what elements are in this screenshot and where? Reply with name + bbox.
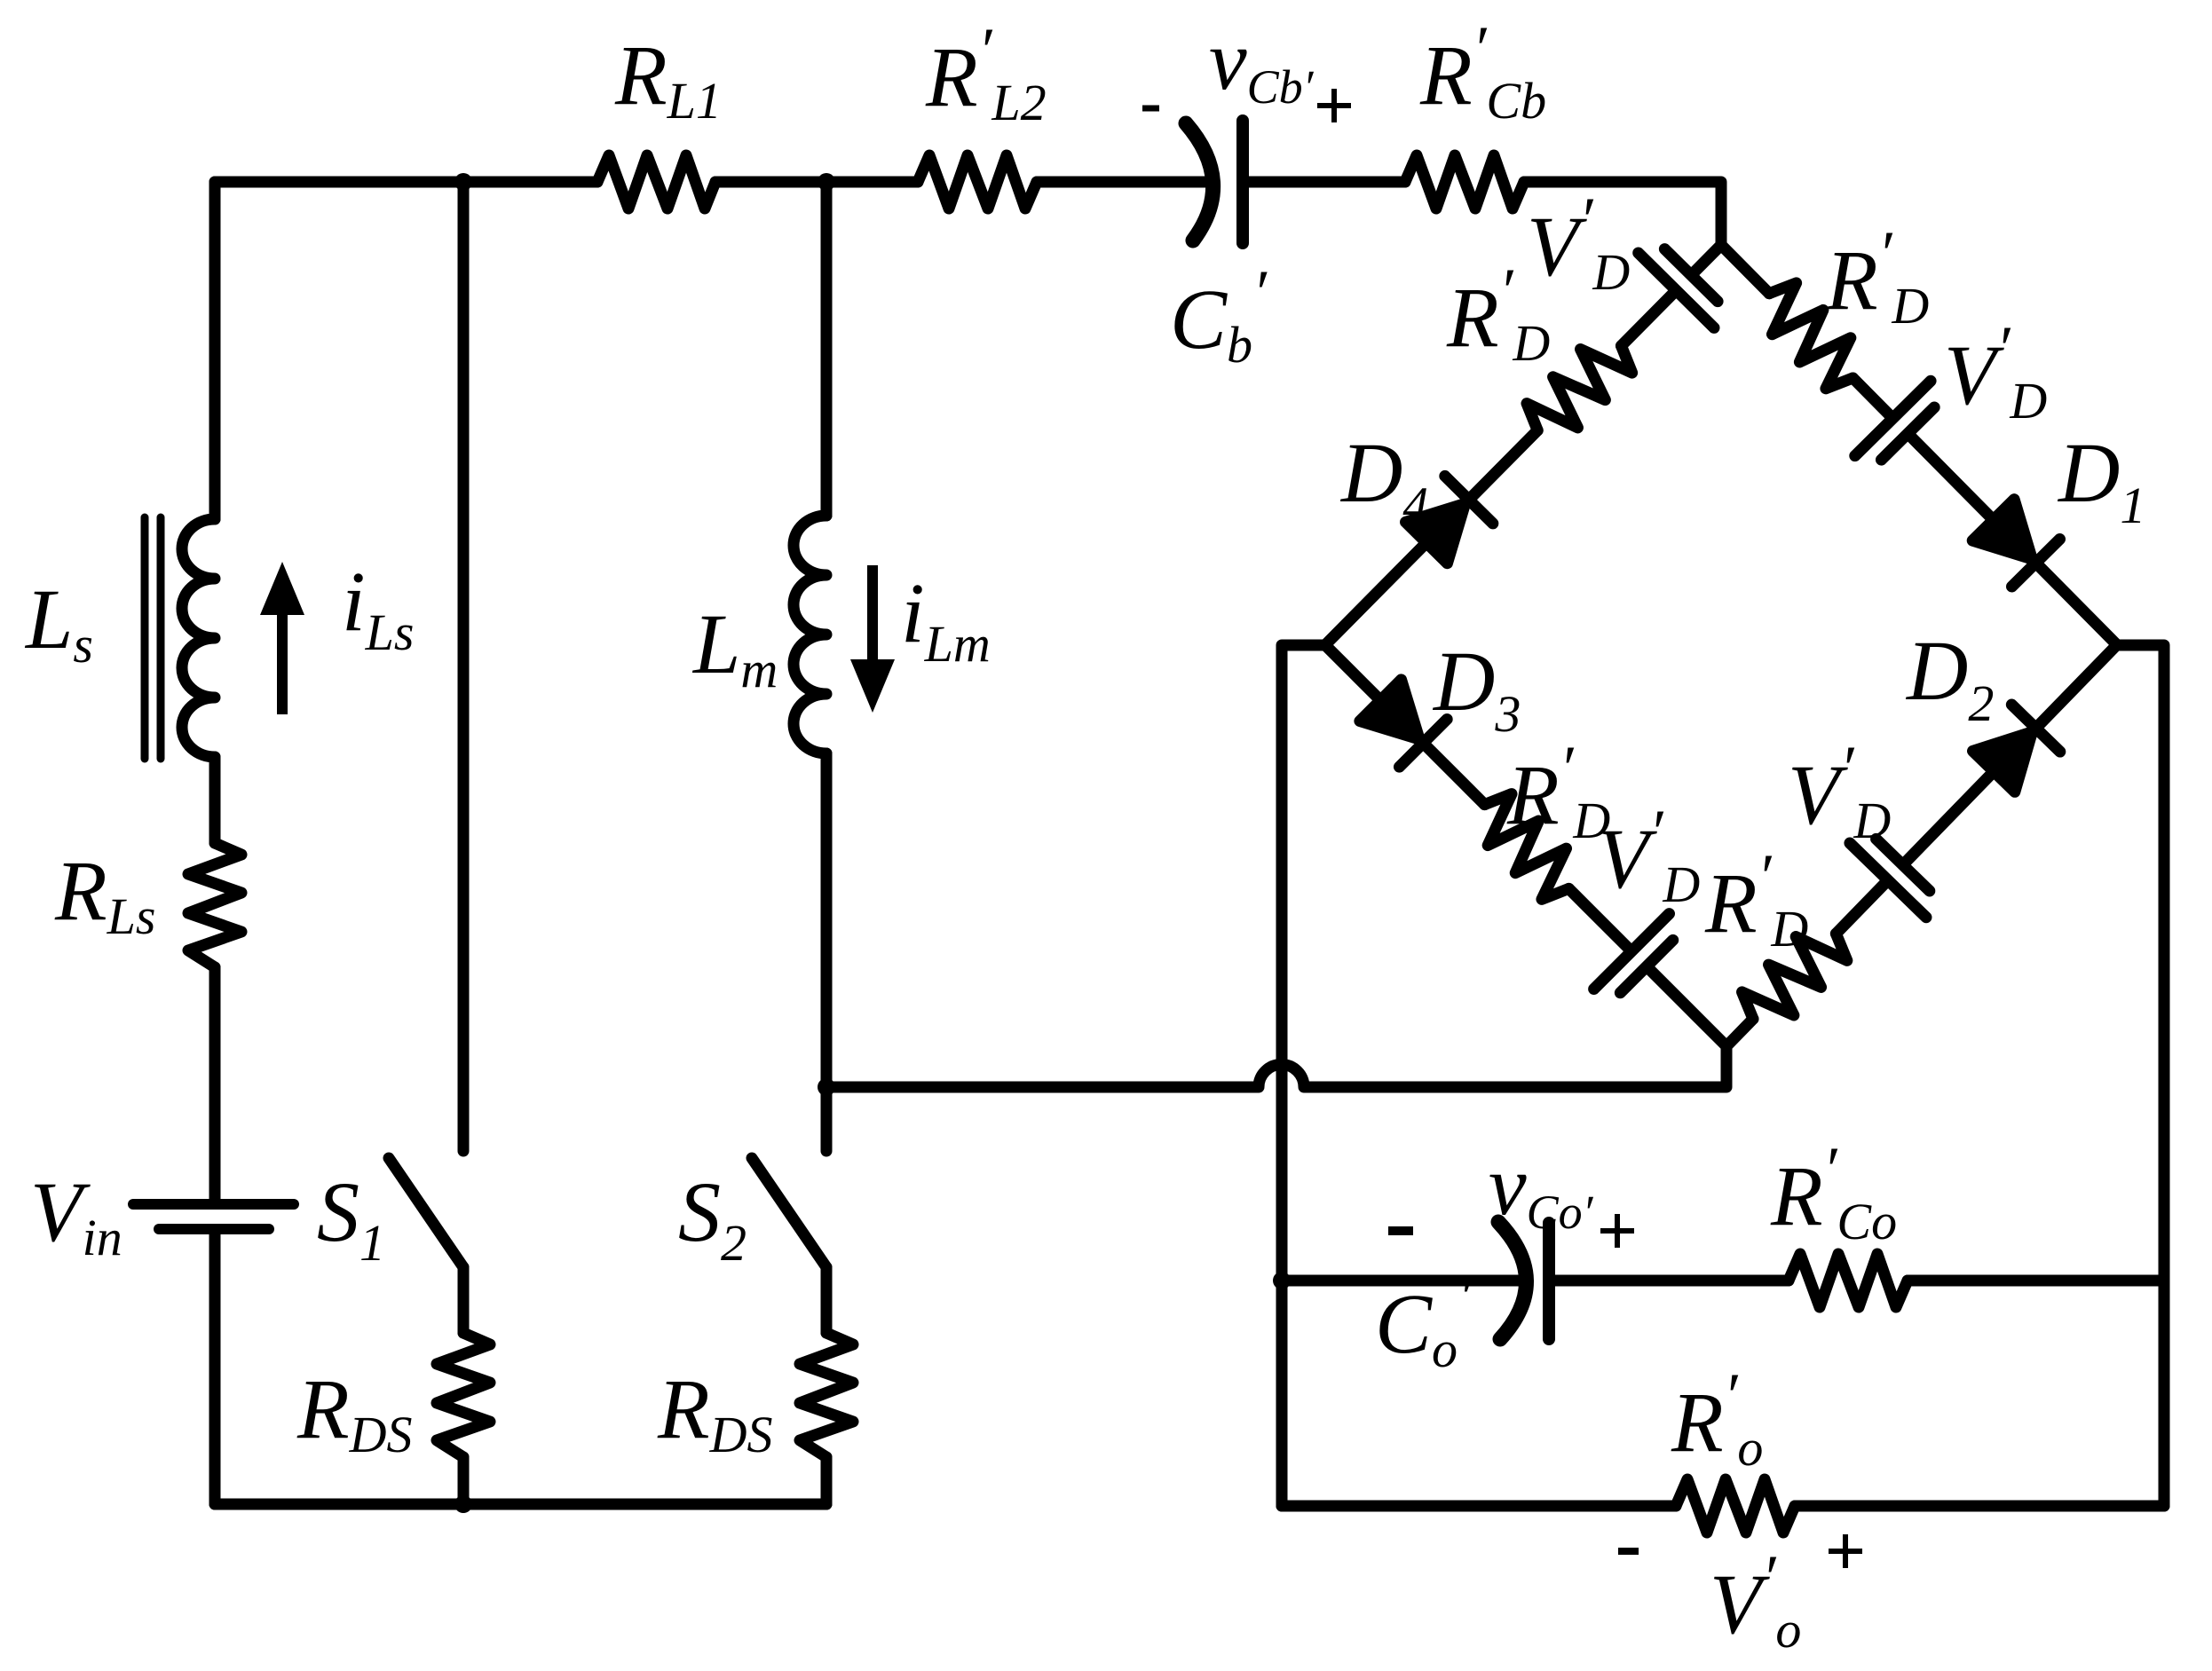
node top Lm junction xyxy=(818,173,835,191)
resistor R'D bottom-left xyxy=(1465,785,1587,907)
label minus Cb xyxy=(1142,106,1159,112)
resistor R'D top-right xyxy=(1750,275,1872,397)
resistor R'L2 xyxy=(918,155,1037,209)
wire bridge edge top-left (A to L) xyxy=(1287,208,1758,682)
transformer core lines xyxy=(145,517,161,759)
wire output bottom bus xyxy=(1282,1501,1676,1512)
battery V'D bottom-left xyxy=(1594,914,1670,989)
wire S1 branch xyxy=(458,182,470,1151)
capacitor Cb' xyxy=(1186,121,1243,243)
switch S2 blade xyxy=(752,1158,826,1267)
node Lm bottom junction xyxy=(818,1078,835,1096)
wire bottom-left bus xyxy=(215,1499,826,1510)
wire left branch vertical xyxy=(209,182,221,519)
wire bridge edge bottom-left (L to B) xyxy=(1288,608,1765,1084)
battery Vin xyxy=(133,1204,294,1229)
wire Lm node to bridge bottom, with hop xyxy=(826,1046,1726,1087)
node junction dots xyxy=(454,173,1291,1513)
node top S1 junction xyxy=(454,173,472,191)
wire bridge edge bottom-right (B to R) xyxy=(1688,609,2154,1084)
node bottom-left junction xyxy=(454,1495,472,1513)
battery V'D top-left xyxy=(1664,249,1718,302)
diode D3 xyxy=(1360,680,1441,761)
wire bridge edge top-right (A to R) xyxy=(1683,208,2154,682)
resistor R'Cb xyxy=(1405,155,1524,209)
resistor RL1 xyxy=(597,155,715,209)
resistor RDS2 xyxy=(800,1333,853,1457)
diode D4 xyxy=(1445,476,1493,523)
label minus Vo xyxy=(1618,1548,1639,1555)
wire bridge right vertex stub and right output vertical xyxy=(2116,645,2164,1506)
wire Co' branch xyxy=(1282,1275,1526,1287)
resistor RDS1 xyxy=(437,1333,490,1457)
resistor R'D top-left xyxy=(1519,327,1640,449)
wire Lm branch xyxy=(821,182,833,516)
inductor Lm coil xyxy=(794,516,826,753)
node Co' junction xyxy=(1273,1272,1291,1289)
resistor R'o xyxy=(1676,1479,1795,1533)
switch S1 blade xyxy=(389,1158,463,1267)
resistor R'D bottom-right xyxy=(1734,915,1854,1037)
label minus Co xyxy=(1388,1226,1413,1235)
battery V'D top-right xyxy=(1855,381,1931,455)
battery V'D bottom-right xyxy=(1850,843,1926,918)
resistor RLs xyxy=(188,843,241,967)
inductor Ls coil xyxy=(182,519,215,757)
diode D2 xyxy=(1973,712,2054,792)
resistor R'Co xyxy=(1789,1254,1908,1307)
arrow iLm xyxy=(850,565,895,713)
wire top bus xyxy=(215,177,597,188)
wire bridge left vertex stub and left output vertical xyxy=(1282,645,1325,1506)
label plus Cb xyxy=(1317,89,1351,122)
capacitor Co' xyxy=(1498,1222,1549,1339)
diode D1 xyxy=(1972,500,2053,579)
arrow iLs xyxy=(260,562,304,714)
label plus Co xyxy=(1600,1214,1634,1248)
label plus Vo xyxy=(1829,1534,1862,1568)
